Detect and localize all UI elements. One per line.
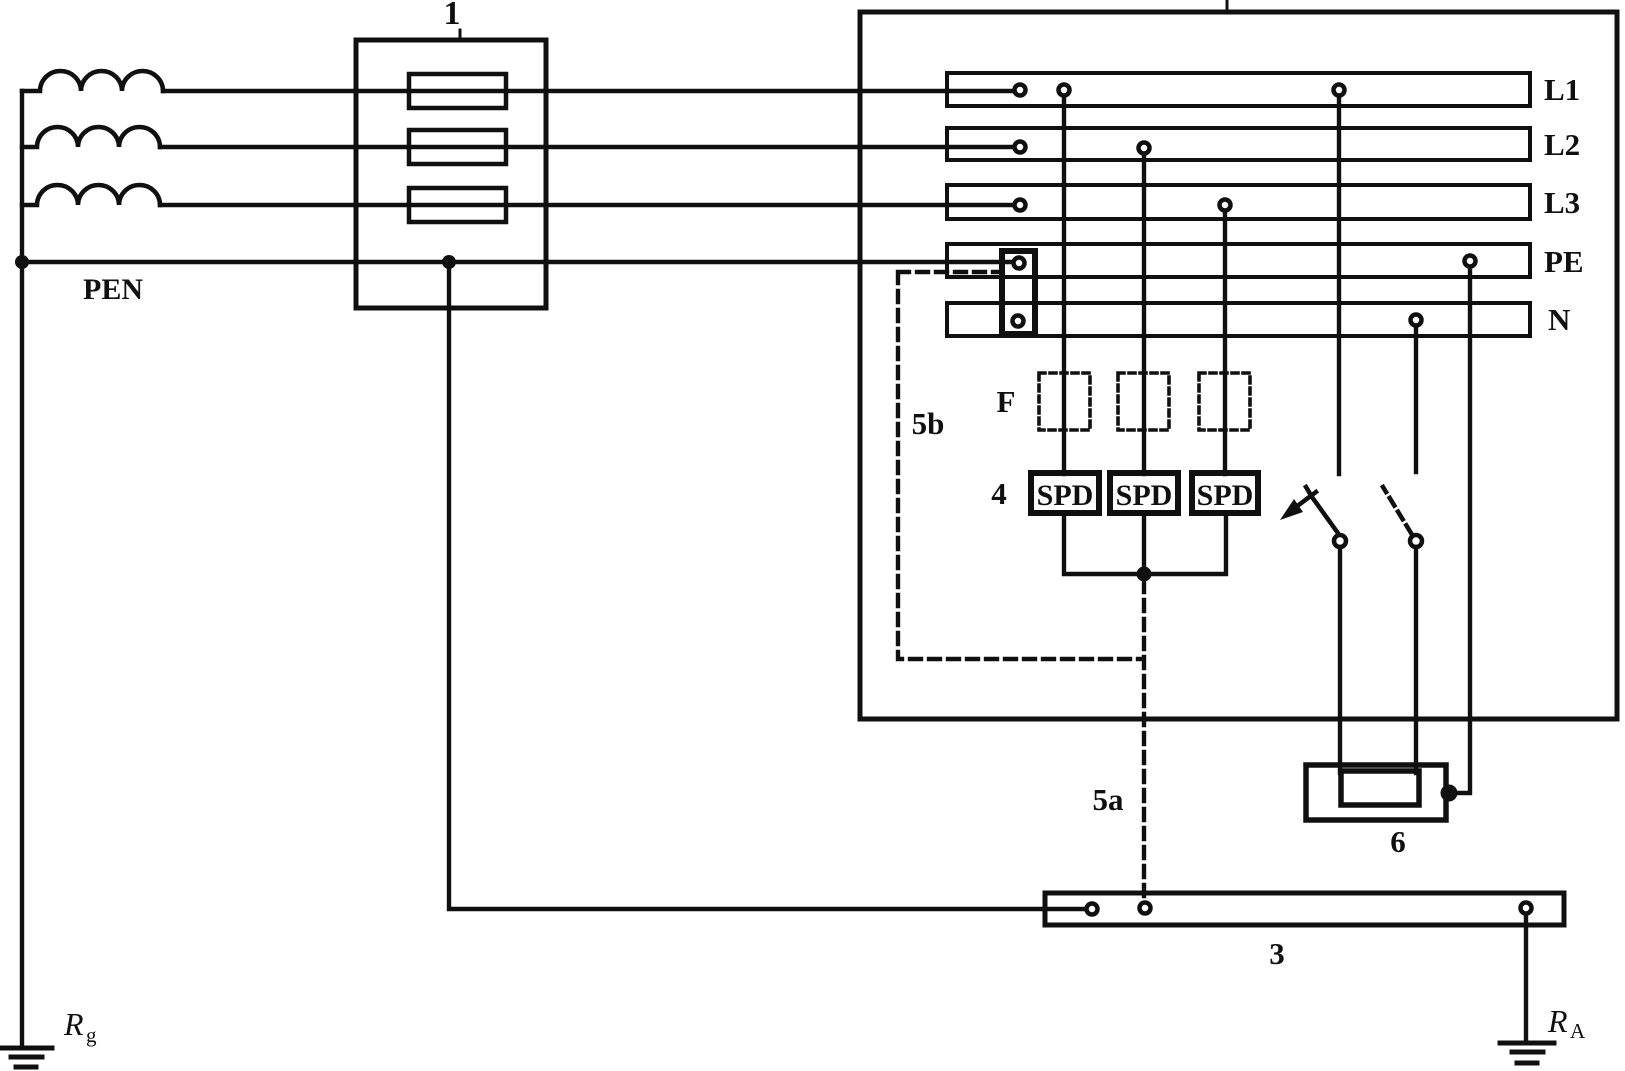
svg-text:6: 6 (1390, 824, 1406, 859)
terminal earth bar left (1087, 904, 1098, 915)
label 1 leader tick (459, 30, 462, 40)
terminal L1 line end (1015, 85, 1026, 96)
wire L1 (163, 89, 1020, 93)
wire PEN (22, 260, 1020, 264)
node PEN-source junction (15, 255, 29, 269)
winding W3 (L3 source coil) (22, 185, 160, 205)
terminal L2 SPD tap (1139, 143, 1150, 154)
svg-text:A: A (1570, 1019, 1586, 1043)
terminal L2 line end (1015, 142, 1026, 153)
SPD U3 (1192, 473, 1258, 513)
switch S2 dashed blade (1383, 487, 1411, 533)
svg-text:L2: L2 (1544, 127, 1580, 162)
dashed bond 5a (1142, 581, 1146, 901)
wire L3 (160, 203, 1020, 207)
svg-text:PE: PE (1544, 244, 1584, 279)
PE-N link box (1002, 251, 1035, 334)
winding W1 (L1 source coil) (22, 71, 163, 91)
switch S1 pivot (1334, 535, 1346, 547)
wire source neutral rail (20, 91, 24, 1047)
wire L1 to SPD1 (1062, 96, 1066, 474)
wire PEN drop to earth bar (449, 262, 1092, 909)
device 6 inner element (1341, 771, 1419, 805)
switch S1 trip arrow (1296, 492, 1316, 507)
terminal L3 line end (1015, 200, 1026, 211)
busbar L3 (947, 185, 1530, 219)
wire L2 to SPD2 (1142, 153, 1146, 474)
terminal earth bar right (1521, 903, 1532, 914)
SPD U2 (1110, 473, 1178, 513)
switch S2 pivot (1410, 535, 1422, 547)
svg-text:L1: L1 (1544, 72, 1580, 107)
terminal L3 SPD tap (1220, 200, 1231, 211)
svg-text:g: g (86, 1023, 97, 1047)
busbar L2 (947, 128, 1530, 160)
switch S1 blade (1306, 487, 1340, 536)
svg-text:R: R (63, 1006, 84, 1042)
node SPD common junction (1137, 567, 1152, 582)
wire switch S1 to device 6 (1338, 547, 1342, 773)
device 6 outer box (1306, 765, 1446, 820)
winding W2 (L2 source coil) (22, 127, 160, 147)
fuse F dashed 2 (1118, 373, 1169, 430)
svg-text:PEN: PEN (83, 273, 143, 306)
svg-text:SPD: SPD (1116, 479, 1173, 512)
fuse F1 (409, 74, 506, 108)
terminal earth bar 5a (1140, 903, 1151, 914)
busbar PE (947, 244, 1530, 277)
terminal L1 switch tap (1334, 85, 1345, 96)
svg-text:5a: 5a (1093, 782, 1125, 817)
label 2 leader tick (cropped label) (1226, 0, 1229, 12)
wire L1 to switch contact (1337, 96, 1341, 474)
svg-text:SPD: SPD (1197, 479, 1254, 512)
wire PE drop to box 6 (1447, 266, 1470, 793)
svg-text:SPD: SPD (1037, 479, 1094, 512)
terminal N link (1013, 316, 1024, 327)
fuse F2 (409, 130, 506, 164)
busbar N (947, 303, 1530, 336)
fuse F dashed 1 (1039, 373, 1090, 430)
svg-text:1: 1 (444, 0, 461, 32)
dashed bond 5b (898, 272, 1141, 659)
svg-text:N: N (1548, 302, 1570, 337)
SPD U1 (1031, 473, 1099, 513)
svg-text:3: 3 (1269, 936, 1285, 971)
enclosure box 1 (356, 40, 546, 308)
ground RA (1500, 1041, 1554, 1046)
wire switch S2 to device 6 (1414, 547, 1418, 773)
svg-text:F: F (997, 384, 1016, 419)
node PEN junction in box 1 (442, 255, 456, 269)
svg-text:5b: 5b (912, 406, 945, 441)
terminal PE link (1014, 258, 1025, 269)
svg-text:4: 4 (991, 476, 1007, 511)
enclosure main distribution board 2 (860, 12, 1617, 719)
terminal PE drop (1465, 256, 1476, 267)
wire SPD common rail (1064, 513, 1226, 574)
svg-text:R: R (1547, 1003, 1568, 1039)
ground Rg (1, 1046, 52, 1051)
busbar L1 (947, 73, 1530, 106)
node PE to device 6 junction (1441, 785, 1458, 802)
wire N to dashed switch contact (1414, 325, 1418, 472)
fuse F dashed 3 (1199, 373, 1250, 430)
terminal N drop (1411, 315, 1422, 326)
terminal L1 SPD tap (1059, 85, 1070, 96)
earth bar 3 (1045, 893, 1564, 925)
fuse F3 (409, 188, 506, 222)
wire L3 to SPD3 (1223, 210, 1227, 474)
wire L2 (160, 145, 1020, 149)
wire earth bar to RA ground (1524, 914, 1528, 1043)
svg-text:L3: L3 (1544, 185, 1580, 220)
